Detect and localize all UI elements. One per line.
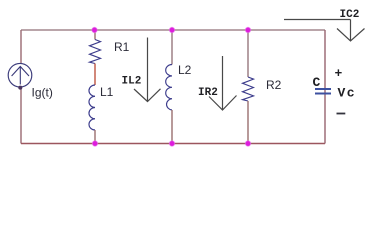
junction dot top R1 bbox=[92, 27, 97, 32]
svg-text:L2: L2 bbox=[178, 63, 192, 77]
svg-text:C: C bbox=[313, 75, 321, 90]
wire branch L2 top stub bbox=[171, 30, 173, 65]
svg-text:L1: L1 bbox=[100, 85, 114, 99]
label minus bbox=[337, 113, 346, 115]
junction dot bottom R2 bbox=[245, 141, 250, 146]
resistor R1 bbox=[90, 40, 101, 64]
current arrow IC2 bbox=[284, 20, 365, 42]
wire R1-L1 middle stub bbox=[94, 64, 96, 86]
svg-text:+: + bbox=[335, 66, 343, 81]
current arrow IL2 bbox=[134, 38, 161, 102]
wire left bbox=[20, 30, 22, 144]
current source tail dot bbox=[18, 86, 22, 90]
svg-text:R2: R2 bbox=[266, 78, 282, 92]
svg-text:IR2: IR2 bbox=[198, 87, 218, 99]
svg-text:Ig(t): Ig(t) bbox=[32, 86, 53, 100]
wire top bbox=[21, 29, 325, 31]
wire bottom bbox=[21, 143, 325, 145]
svg-text:Vc: Vc bbox=[338, 86, 357, 101]
inductor L1 bbox=[89, 85, 95, 130]
wire branch R1-L1 bottom stub bbox=[94, 130, 96, 144]
wire right bbox=[324, 30, 326, 144]
wire branch R2 bottom stub bbox=[247, 101, 249, 144]
resistor R2 bbox=[243, 77, 254, 101]
junction dot top L2 bbox=[169, 27, 174, 32]
wire branch R1-L1 top stub bbox=[94, 30, 96, 40]
svg-text:IC2: IC2 bbox=[340, 9, 360, 21]
wire branch R2 top stub bbox=[247, 30, 249, 77]
junction dot top R2 bbox=[245, 27, 250, 32]
current arrow IR2 bbox=[209, 56, 237, 110]
wire branch L2 bottom stub bbox=[171, 110, 173, 144]
junction dot bottom L2 bbox=[169, 141, 174, 146]
svg-text:R1: R1 bbox=[114, 40, 130, 54]
current source Ig circle bbox=[8, 63, 32, 87]
current source arrow bbox=[12, 67, 29, 85]
inductor L2 bbox=[166, 65, 172, 111]
svg-text:IL2: IL2 bbox=[122, 76, 142, 88]
capacitor C plates bbox=[315, 89, 331, 94]
junction dot bottom L1 bbox=[92, 141, 97, 146]
